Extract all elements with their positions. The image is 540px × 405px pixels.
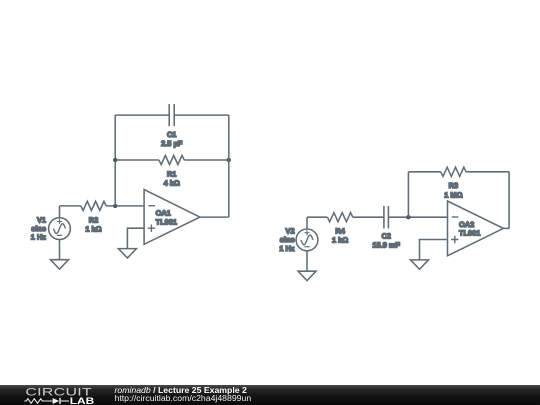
svg-text:C1: C1 [167, 130, 176, 139]
wire V1 to R2 [60, 205, 81, 207]
svg-text:1 Hz: 1 Hz [31, 233, 47, 242]
svg-text:1 Hz: 1 Hz [279, 244, 295, 253]
ground OA2 plus [411, 260, 429, 269]
wire V2 top stub [306, 217, 308, 229]
wire R3 loop right [466, 171, 509, 173]
op-amp OA1 [144, 190, 200, 245]
wire R2 to OA1 inverting input [106, 205, 144, 207]
wire R3 loop left [408, 171, 440, 173]
node junction R1 right [227, 158, 231, 162]
resistor R4 [327, 213, 352, 222]
svg-text:LAB: LAB [70, 395, 95, 405]
svg-text:4 kΩ: 4 kΩ [164, 178, 180, 187]
wire top loop right [174, 114, 228, 116]
wire vertical feedback riser [114, 115, 116, 206]
wire V2 bottom stub [306, 251, 308, 271]
ground V2 [298, 271, 316, 280]
svg-text:TL081: TL081 [156, 217, 177, 226]
svg-text:15.9 mF: 15.9 mF [372, 241, 400, 250]
wire OA2 output [503, 227, 509, 229]
label OA2 name [459, 220, 480, 238]
wire V1 top stub [59, 206, 61, 218]
label V2 value [279, 227, 295, 253]
ground V1 [51, 260, 69, 269]
wire right vertical feedback [228, 115, 230, 217]
label R2 value [85, 215, 101, 233]
svg-text:R1: R1 [167, 169, 176, 178]
wire right vertical to output [508, 172, 510, 229]
label R3 value [444, 181, 462, 199]
svg-text:OA2: OA2 [459, 220, 474, 229]
label C1 value [161, 130, 183, 148]
wire R1 loop right [184, 159, 229, 161]
capacitor C2 [384, 206, 389, 229]
resistor R3 [441, 167, 466, 176]
label R4 value [332, 227, 348, 245]
voltage source V1 [49, 218, 71, 240]
label C2 value [372, 232, 400, 250]
svg-text:C2: C2 [381, 232, 390, 241]
svg-text:R4: R4 [335, 227, 345, 236]
wire feedback riser [407, 172, 409, 217]
resistor R1 [159, 155, 184, 164]
op-amp OA2 [448, 201, 504, 256]
node junction R1 left [113, 158, 117, 162]
wire V2 to R4 [307, 216, 327, 218]
node junction input [113, 204, 117, 208]
wire V1 bottom stub [59, 240, 61, 260]
svg-text:1 kΩ: 1 kΩ [85, 224, 101, 233]
label V1 value [31, 215, 47, 241]
wire top loop left [115, 114, 169, 116]
CircuitLab logo [0, 385, 110, 405]
node junction feedback [406, 215, 410, 219]
wire R1 loop left [115, 159, 159, 161]
svg-text:OA1: OA1 [156, 209, 171, 218]
svg-text:TL081: TL081 [459, 229, 480, 238]
svg-text:R3: R3 [449, 181, 458, 190]
voltage source V2 [296, 229, 318, 251]
footer bar [0, 385, 540, 405]
svg-text:2.5 µF: 2.5 µF [161, 139, 183, 148]
wire R4 to C2 [353, 216, 384, 218]
svg-text:R2: R2 [89, 215, 98, 224]
wire OA1 output [200, 216, 229, 218]
wire OA2 non-inverting input [420, 240, 448, 260]
svg-text:1 kΩ: 1 kΩ [332, 236, 348, 245]
footer text [115, 386, 252, 403]
capacitor C1 [169, 104, 174, 126]
svg-text:1 MΩ: 1 MΩ [444, 190, 462, 199]
ground OA1 plus [118, 249, 136, 258]
wire OA1 non-inverting input [127, 228, 144, 248]
label R1 value [164, 169, 180, 187]
wire C2 to OA2 inverting input [389, 216, 448, 218]
label OA1 name [156, 209, 177, 227]
resistor R2 [81, 201, 106, 210]
